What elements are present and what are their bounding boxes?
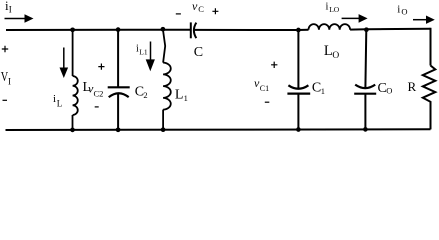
svg-text:R: R xyxy=(408,79,417,94)
svg-text:C: C xyxy=(198,4,204,14)
svg-text:1: 1 xyxy=(321,86,325,96)
svg-text:C: C xyxy=(194,45,203,60)
svg-text:I: I xyxy=(8,77,11,87)
svg-text:LO: LO xyxy=(329,5,340,14)
svg-text:i: i xyxy=(53,93,56,105)
svg-text:L: L xyxy=(57,99,63,109)
svg-text:O: O xyxy=(401,6,407,16)
svg-text:O: O xyxy=(332,51,339,61)
svg-text:1: 1 xyxy=(184,93,188,103)
svg-text:i: i xyxy=(397,3,400,15)
svg-text:2: 2 xyxy=(143,90,147,100)
svg-text:i: i xyxy=(326,2,329,13)
svg-text:v: v xyxy=(192,0,198,13)
svg-text:L: L xyxy=(175,88,184,103)
svg-text:O: O xyxy=(386,85,392,95)
svg-text:I: I xyxy=(9,5,12,15)
svg-text:C1: C1 xyxy=(260,84,269,93)
svg-text:C2: C2 xyxy=(94,89,104,99)
svg-text:L1: L1 xyxy=(139,48,148,57)
